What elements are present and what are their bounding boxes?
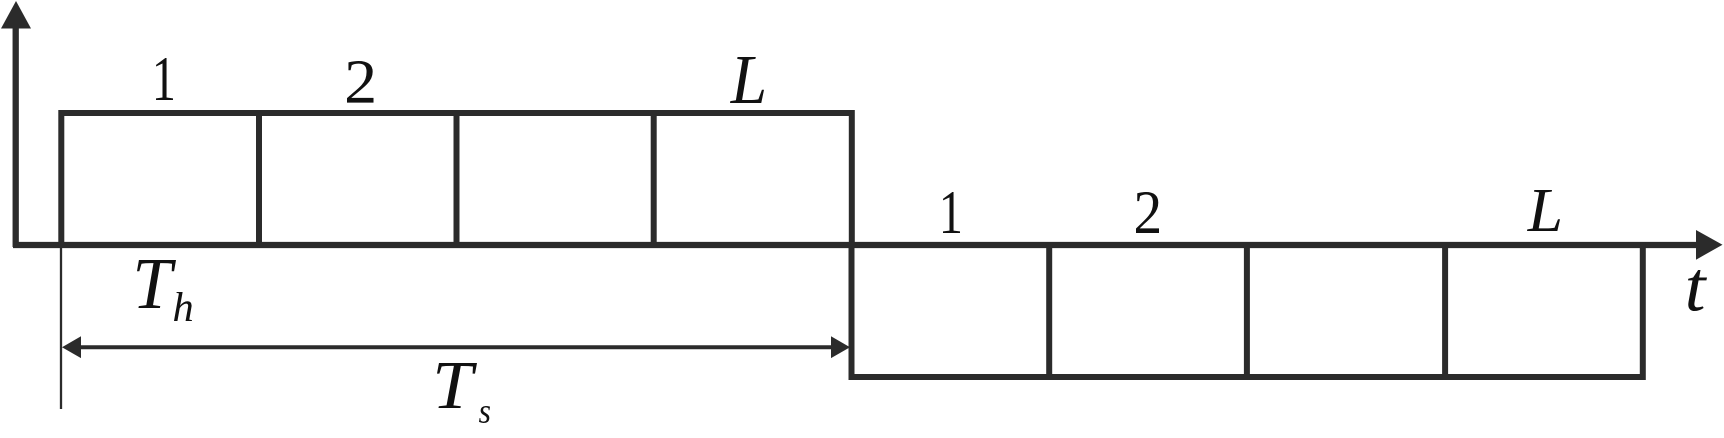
lower slot divider 1 [1046, 245, 1052, 377]
Ts arrowhead left [62, 336, 81, 358]
label slot 1 upper [156, 58, 173, 100]
y-axis line [13, 26, 19, 247]
label slot 2 upper [347, 61, 374, 103]
thin reference line below origin [60, 248, 62, 409]
upper slot divider 2 [454, 113, 460, 245]
label Ts [437, 363, 477, 408]
label slot 2 lower [1136, 192, 1159, 233]
lower slot divider 2 [1244, 245, 1250, 377]
upper slot row outline [61, 113, 852, 245]
label t axis [1688, 270, 1707, 311]
label slot L lower [1527, 190, 1560, 231]
label slot L upper [730, 57, 764, 103]
label slot 1 lower [943, 192, 960, 233]
Ts arrowhead right [831, 336, 850, 358]
upper slot divider 3 [651, 113, 657, 245]
lower slot row outline [852, 245, 1643, 377]
lower slot divider 3 [1442, 245, 1448, 377]
label Th [137, 260, 176, 308]
Ts dimension arrow line [79, 345, 833, 349]
upper slot divider 1 [256, 113, 262, 245]
t-axis arrowhead [1696, 230, 1723, 260]
y-axis arrowhead [1, 1, 31, 29]
t-axis line [13, 242, 1698, 248]
